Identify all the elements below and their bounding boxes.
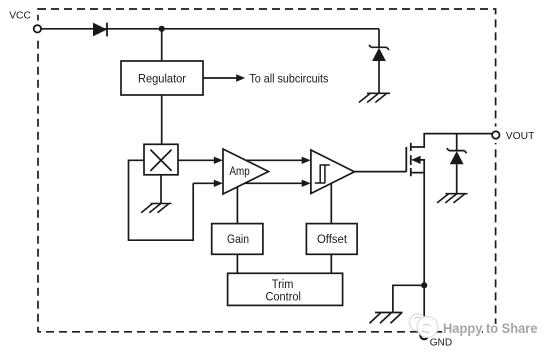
svg-text:Amp: Amp xyxy=(229,166,249,178)
svg-text:GND: GND xyxy=(430,337,452,348)
svg-text:Offset: Offset xyxy=(317,232,348,246)
svg-text:Happy to Share: Happy to Share xyxy=(443,320,538,336)
svg-text:VCC: VCC xyxy=(9,11,31,22)
svg-text:Control: Control xyxy=(266,290,301,304)
svg-text:To all subcircuits: To all subcircuits xyxy=(249,72,328,86)
svg-text:Gain: Gain xyxy=(227,232,249,246)
svg-text:Regulator: Regulator xyxy=(138,72,186,86)
svg-text:VOUT: VOUT xyxy=(506,131,535,142)
